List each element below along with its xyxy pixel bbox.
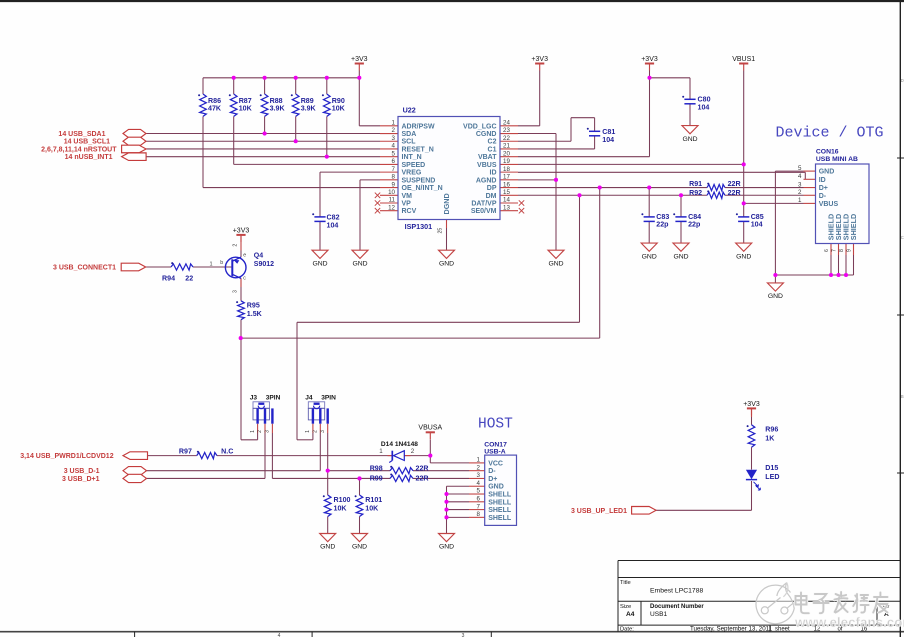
junction shield bus GND	[773, 273, 777, 277]
wire C1 pin 21 to C81	[518, 148, 595, 150]
D14 stubs	[388, 455, 393, 457]
Q4 collector stub	[240, 278, 242, 287]
svg-text:3: 3	[477, 472, 481, 479]
wire USB_UP_LED1 to D15	[656, 509, 751, 511]
watermark text	[796, 593, 809, 614]
svg-text:C2: C2	[488, 139, 497, 146]
wire C84 to GND	[680, 221, 682, 243]
svg-text:10K: 10K	[239, 105, 253, 113]
wire R89 to SCL	[295, 78, 297, 94]
ground under CON17	[439, 534, 455, 542]
svg-text:c: c	[243, 276, 246, 282]
svg-text:3: 3	[462, 633, 465, 637]
U22 pin 25 stub	[446, 220, 448, 229]
junction shield pin 8	[844, 273, 848, 277]
capacitor C82 104	[314, 216, 325, 218]
wire +3V3 branch to C80	[650, 77, 691, 79]
svg-text:14 USB_SDA1: 14 USB_SDA1	[58, 131, 105, 138]
svg-text:RCV: RCV	[402, 208, 417, 215]
svg-text:1: 1	[392, 120, 396, 127]
svg-text:ISP1301: ISP1301	[405, 222, 433, 231]
svg-text:18: 18	[503, 166, 510, 173]
svg-text:R98: R98	[370, 465, 383, 473]
ground under CGND	[548, 250, 564, 258]
svg-text:C: C	[901, 235, 904, 240]
wire USB_SCL1 net	[146, 140, 380, 142]
ground under C83	[641, 243, 657, 251]
svg-text:+3V3: +3V3	[531, 56, 548, 63]
wire nRSTOUT net	[146, 148, 380, 150]
resistor R96 1K	[748, 425, 755, 447]
svg-text:22R: 22R	[728, 180, 741, 188]
ground under C82	[312, 250, 328, 258]
junction VBUS1 on VBUS pin 19	[742, 162, 746, 166]
svg-text:GND: GND	[768, 293, 783, 300]
wire CON17 shell pins	[447, 493, 470, 495]
svg-text:USB1: USB1	[650, 611, 668, 618]
port USB_SCL1	[123, 137, 146, 145]
wire DM pin 15 to R92	[518, 194, 707, 196]
wire SUSPEND pin 8 to GND	[360, 179, 380, 181]
svg-text:1: 1	[477, 457, 481, 464]
wire R90 to INT_N	[326, 78, 328, 94]
ground under SUSPEND	[352, 250, 368, 258]
svg-text:C1: C1	[488, 146, 497, 153]
svg-text:Device / OTG: Device / OTG	[776, 125, 884, 142]
svg-text:9: 9	[847, 249, 853, 252]
svg-text:D14 1N4148: D14 1N4148	[381, 441, 418, 448]
no-connect X pins DAT/VP SE0/VM	[519, 200, 524, 205]
svg-text:R97: R97	[179, 448, 192, 456]
wire ID pin 18 to CON16 ID	[518, 171, 805, 173]
svg-text:www.elecfans.com: www.elecfans.com	[794, 615, 904, 630]
wire CON17 GND pin 4	[447, 485, 470, 487]
svg-text:LED: LED	[765, 473, 779, 481]
ground under C84	[673, 243, 689, 251]
junction J4 pin 3 R100	[326, 469, 330, 473]
R96 top stub	[751, 409, 753, 417]
wire C84 to DM	[680, 195, 682, 217]
capacitor C83 22p	[644, 216, 655, 218]
resistor R100 10K	[324, 495, 331, 517]
CON17 pin stubs	[469, 462, 485, 464]
svg-text:Date:: Date:	[620, 627, 634, 633]
wire VBUS pin 19 to VBUS1	[518, 163, 744, 165]
svg-text:CON17: CON17	[484, 441, 507, 448]
svg-text:INT_N: INT_N	[402, 154, 422, 161]
svg-text:VDD_LGC: VDD_LGC	[463, 123, 496, 130]
svg-text:2: 2	[411, 448, 415, 455]
wire USB_CONNECT1 to R94 and Q4 base	[146, 266, 171, 268]
resistor R97 N.C	[197, 453, 217, 459]
watermark logo	[756, 583, 794, 624]
resistor R86 47K	[200, 94, 207, 116]
svg-text:16: 16	[503, 181, 510, 188]
svg-text:SHELL: SHELL	[488, 492, 512, 499]
svg-text:8: 8	[392, 174, 396, 181]
resistor R95 1.5K	[238, 301, 245, 320]
junction R88 on +3V3 rail	[263, 76, 267, 80]
svg-text:2: 2	[798, 189, 802, 196]
svg-text:HOST: HOST	[478, 416, 513, 432]
svg-text:SHELL: SHELL	[488, 499, 512, 506]
svg-text:ID: ID	[819, 177, 826, 184]
svg-text:10K: 10K	[334, 505, 348, 513]
svg-text:D+: D+	[819, 185, 828, 192]
svg-text:DM: DM	[486, 193, 497, 200]
wire R92 to CON16 D-	[725, 194, 804, 196]
wire C80 to GND	[689, 104, 691, 126]
svg-text:3: 3	[233, 290, 239, 293]
svg-text:VCC: VCC	[488, 460, 503, 467]
wire CON16 shield bus	[775, 274, 853, 276]
svg-text:Embest LPC1788: Embest LPC1788	[650, 588, 703, 595]
svg-text:22: 22	[185, 275, 193, 283]
svg-text:C82: C82	[327, 214, 340, 222]
svg-text:ID: ID	[490, 170, 497, 177]
title block	[617, 561, 619, 632]
svg-text:11: 11	[389, 197, 396, 204]
svg-text:DAT/VP: DAT/VP	[471, 201, 496, 208]
svg-text:+3V3: +3V3	[233, 227, 250, 234]
svg-text:GND: GND	[682, 136, 697, 143]
svg-text:CGND: CGND	[476, 131, 497, 138]
svg-text:SUSPEND: SUSPEND	[402, 177, 436, 184]
resistor R101 10K	[356, 495, 363, 517]
svg-text:R95: R95	[247, 302, 260, 310]
op-amp U22 ISP1301 body	[398, 117, 500, 220]
svg-text:GND: GND	[819, 169, 835, 176]
resistor R98 22R	[390, 468, 413, 474]
svg-text:1K: 1K	[765, 435, 775, 443]
svg-text:D15: D15	[765, 464, 778, 472]
svg-text:D+: D+	[488, 476, 497, 483]
svg-text:R92: R92	[689, 189, 702, 197]
junction C84 on DM	[679, 193, 683, 197]
svg-text:6: 6	[824, 249, 830, 252]
svg-text:3: 3	[392, 135, 396, 142]
svg-text:7: 7	[477, 503, 481, 510]
jumper J3 3PIN	[253, 402, 269, 409]
wire DP node down to J3 pin 1	[240, 338, 242, 440]
svg-text:4: 4	[278, 633, 281, 637]
svg-text:VREG: VREG	[402, 170, 422, 177]
svg-text:8: 8	[839, 249, 845, 252]
svg-text:22R: 22R	[416, 465, 429, 473]
wire C85 to GND	[743, 221, 745, 243]
svg-text:B: B	[901, 394, 904, 399]
connector CON17 USB-A body	[485, 455, 517, 525]
wire C83 to GND	[648, 221, 650, 243]
CON16 pin stubs	[804, 170, 816, 172]
svg-text:+3V3: +3V3	[743, 401, 760, 408]
svg-text:3 USB_CONNECT1: 3 USB_CONNECT1	[53, 265, 116, 272]
diode D14 1N4148	[391, 451, 393, 461]
junction CON17 shell 5	[444, 492, 448, 496]
svg-text:3 USB_UP_LED1: 3 USB_UP_LED1	[571, 508, 627, 515]
wire +3V3 to R96	[751, 415, 753, 424]
svg-text:RESET_N: RESET_N	[402, 146, 434, 153]
port USB_SDA1	[123, 129, 146, 137]
junction R90 on INT_N	[325, 155, 329, 159]
wire C2 pin 22 to C81	[518, 140, 571, 142]
wire CON16 GND pin 5	[775, 170, 803, 172]
svg-text:3: 3	[320, 430, 326, 433]
wire R99 to CON17 D+	[413, 477, 469, 479]
wire R96 to D15	[751, 447, 753, 469]
resistor R90 10K	[324, 94, 331, 116]
svg-text:25: 25	[438, 228, 444, 234]
resistor R89 3.9K	[292, 94, 299, 116]
wire R88 to SDA	[264, 78, 266, 94]
svg-text:3PIN: 3PIN	[266, 395, 281, 402]
svg-text:2: 2	[233, 244, 239, 247]
ground under C85	[736, 243, 752, 251]
junction J3 branch on DP	[598, 186, 602, 190]
svg-text:GND: GND	[312, 260, 327, 267]
wire R87 to SPEED pin 6	[233, 78, 235, 94]
capacitor C81 104	[589, 130, 600, 132]
wire C82 to GND	[319, 221, 321, 250]
J4 pin stubs	[312, 424, 314, 433]
svg-text:ADR/PSW: ADR/PSW	[402, 123, 435, 130]
svg-text:+3V3: +3V3	[641, 56, 658, 63]
svg-text:17: 17	[503, 174, 510, 181]
junction R101 on D+ host	[357, 476, 361, 480]
junction R95 DP node	[239, 336, 243, 340]
wire VBUSA node to CON17 VCC	[429, 456, 431, 463]
svg-text:104: 104	[751, 221, 763, 229]
port USB_PWRD1/LCDVD12	[123, 452, 148, 460]
junction R89 on SCL	[294, 139, 298, 143]
power +3V3 above pull-up rail	[355, 63, 364, 65]
LED D15	[746, 470, 757, 479]
svg-text:SHELL: SHELL	[488, 515, 512, 522]
svg-text:R91: R91	[689, 180, 702, 188]
svg-text:3 USB_D-1: 3 USB_D-1	[64, 468, 100, 475]
junction AGND on CGND	[554, 178, 558, 182]
capacitor C85 104	[738, 216, 749, 218]
jumper J4 3PIN	[308, 402, 324, 409]
wire J4 pin 3 to R98	[327, 433, 329, 471]
svg-text:VBUS: VBUS	[819, 201, 839, 208]
svg-text:S9012: S9012	[254, 261, 274, 268]
port nRSTOUT	[122, 145, 147, 153]
svg-text:2: 2	[477, 464, 481, 471]
wire J3 pin 2 to USB_D+1 port	[264, 433, 266, 478]
svg-text:R96: R96	[765, 426, 778, 434]
page border	[0, 0, 904, 2]
svg-text:GND: GND	[352, 544, 367, 551]
svg-text:SHIELD: SHIELD	[849, 214, 858, 240]
svg-text:22p: 22p	[688, 221, 701, 229]
svg-text:5: 5	[798, 165, 802, 172]
svg-text:VBUS: VBUS	[477, 162, 497, 169]
port USB_D-1	[123, 467, 147, 475]
svg-text:10: 10	[388, 189, 395, 196]
ground under CON16 shield	[767, 283, 783, 291]
wire USB_PWRD1 to R97	[146, 455, 197, 457]
svg-text:2: 2	[392, 127, 396, 134]
junction R90 on +3V3 rail	[325, 76, 329, 80]
svg-text:104: 104	[698, 104, 710, 112]
svg-text:4: 4	[477, 480, 481, 487]
svg-text:3.9K: 3.9K	[301, 105, 317, 113]
wire CGND pin 23 to GND	[518, 133, 556, 135]
svg-text:23: 23	[503, 127, 510, 134]
svg-text:Document Number: Document Number	[650, 604, 704, 610]
svg-text:14: 14	[503, 197, 510, 204]
wire VBUSA stem	[429, 440, 431, 456]
junction CON17 shell 6	[444, 500, 448, 504]
svg-text:D-: D-	[819, 193, 827, 200]
wire Q4 collector to R95	[240, 278, 242, 301]
svg-text:22p: 22p	[656, 221, 669, 229]
svg-text:47K: 47K	[208, 105, 222, 113]
svg-text:3 USB_D+1: 3 USB_D+1	[62, 476, 100, 483]
svg-text:Q4: Q4	[254, 252, 263, 259]
svg-text:SDA: SDA	[402, 131, 417, 138]
svg-text:USB-A: USB-A	[484, 448, 506, 455]
svg-text:SHELL: SHELL	[488, 507, 512, 514]
U22 right pin stubs	[500, 125, 518, 127]
wire D14 to VBUSA node	[404, 455, 430, 457]
power +3V3 above VBAT	[645, 63, 654, 65]
svg-text:SE0/VM: SE0/VM	[471, 208, 497, 215]
svg-text:R101: R101	[365, 496, 382, 504]
svg-text:USB MINI AB: USB MINI AB	[816, 156, 858, 163]
junction CON17 shell 8	[444, 515, 448, 519]
svg-text:R99: R99	[370, 475, 383, 483]
svg-text:2,6,7,8,11,14 nRSTOUT: 2,6,7,8,11,14 nRSTOUT	[41, 146, 117, 153]
svg-text:1.5K: 1.5K	[247, 310, 263, 318]
svg-text:C80: C80	[698, 96, 711, 104]
resistor R92 22R	[707, 192, 725, 198]
connector CON16 USB MINI AB body	[816, 164, 870, 244]
svg-text:20: 20	[503, 150, 510, 157]
svg-text:4: 4	[798, 173, 802, 180]
no-connect X pins VM VP RCV	[375, 193, 380, 198]
svg-text:5: 5	[392, 150, 396, 157]
svg-text:DP: DP	[487, 185, 497, 192]
resistor R94 22	[171, 264, 193, 270]
svg-text:b: b	[220, 260, 223, 266]
junction C83 on DP	[647, 186, 651, 190]
svg-text:4: 4	[392, 143, 396, 150]
wire DP pin 16 to R91	[518, 187, 707, 189]
svg-text:6: 6	[392, 158, 396, 165]
junction R88 on SDA	[263, 131, 267, 135]
svg-text:D-: D-	[488, 468, 496, 475]
svg-text:R94: R94	[162, 275, 175, 283]
wire R86 to OE_N/INT_N pin 9	[202, 78, 204, 94]
svg-text:12: 12	[388, 204, 395, 211]
resistor R87 10K	[230, 94, 237, 116]
resistor R88 3.9K	[261, 94, 268, 116]
svg-text:U22: U22	[403, 106, 416, 115]
Q4 emitter stub	[240, 236, 242, 251]
power +3V3 above R96	[747, 407, 756, 409]
resistor R99 22R	[390, 475, 413, 481]
resistor R91 22R	[707, 184, 725, 190]
svg-text:22: 22	[503, 135, 510, 142]
port USB_UP_LED1	[632, 507, 657, 515]
wire R95 to DP node	[240, 320, 242, 338]
svg-text:1: 1	[305, 430, 311, 433]
svg-text:24: 24	[503, 120, 510, 127]
svg-text:N.C: N.C	[221, 448, 233, 456]
wire C83 to DP	[648, 188, 650, 217]
svg-text:22R: 22R	[416, 475, 429, 483]
svg-text:GND: GND	[439, 544, 454, 551]
svg-text:GND: GND	[673, 253, 688, 260]
svg-text:GND: GND	[320, 544, 335, 551]
svg-text:3: 3	[265, 430, 271, 433]
U22 left pin stubs	[380, 125, 398, 127]
port nUSB_INT1	[122, 153, 147, 161]
wire +3V3 to ADR/PSW pin 1	[358, 71, 360, 126]
junction shield pin 6	[829, 273, 833, 277]
wire R91 to CON16 D+	[725, 187, 804, 189]
wire VREG pin 7 to C82	[320, 171, 380, 173]
svg-text:VM: VM	[402, 193, 413, 200]
svg-text:14 nUSB_INT1: 14 nUSB_INT1	[65, 154, 113, 161]
svg-text:22R: 22R	[728, 189, 741, 197]
svg-text:sheet: sheet	[775, 627, 790, 633]
svg-text:1: 1	[798, 197, 802, 204]
svg-text:DGND: DGND	[442, 193, 451, 214]
svg-text:GND: GND	[352, 260, 367, 267]
svg-text:19: 19	[503, 158, 510, 165]
wire CON16 VBUS pin 1	[744, 202, 804, 204]
transistor Q4 S9012	[225, 257, 246, 278]
svg-text:D: D	[901, 78, 904, 83]
J3 pin stubs	[257, 424, 259, 433]
wire DP node to U22 DP pin 16	[241, 337, 600, 339]
power VBUS1	[739, 63, 748, 65]
wire VDD_LGC pin 24 to +3V3	[518, 125, 540, 127]
svg-text:GND: GND	[548, 260, 563, 267]
svg-text:GND: GND	[642, 253, 657, 260]
wire VBUS1 vertical	[743, 71, 745, 217]
svg-text:J4: J4	[305, 395, 313, 402]
svg-text:1: 1	[210, 261, 213, 267]
junction R89 on +3V3 rail	[294, 76, 298, 80]
capacitor C84 22p	[675, 216, 686, 218]
svg-text:e: e	[243, 252, 246, 258]
svg-text:GND: GND	[736, 253, 751, 260]
svg-text:Tuesday, September 13, 2011: Tuesday, September 13, 2011	[690, 626, 773, 633]
svg-text:104: 104	[602, 136, 614, 144]
svg-text:15: 15	[503, 189, 510, 196]
junction CON17 shell 7	[444, 508, 448, 512]
svg-text:VBAT: VBAT	[478, 154, 497, 161]
wire shield bus to GND	[774, 275, 776, 283]
svg-text:GND: GND	[439, 260, 454, 267]
svg-text:13: 13	[503, 204, 510, 211]
wire VBAT pin 20 to +3V3	[518, 156, 650, 158]
power VBUSA	[426, 431, 435, 433]
wire U22 DGND pin 25 to GND	[446, 228, 448, 250]
svg-text:Title: Title	[620, 580, 631, 586]
svg-text:C81: C81	[602, 128, 615, 136]
svg-text:10K: 10K	[332, 105, 346, 113]
svg-text:CON16: CON16	[816, 149, 839, 156]
svg-text:104: 104	[327, 222, 339, 230]
wire AGND pin 17	[518, 179, 556, 181]
capacitor C80 104	[684, 98, 695, 100]
wire R101 pulldown	[359, 478, 361, 495]
